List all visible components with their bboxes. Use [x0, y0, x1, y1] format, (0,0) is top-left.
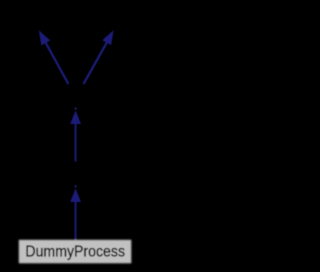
wire: middle vertical inheritance edge shaft: [75, 124, 77, 162]
node DummyProcess: class box: [19, 240, 132, 263]
wire: right inheritance edge shaft: [84, 43, 107, 84]
wire: left inheritance edge shaft: [46, 43, 69, 84]
node: left arrowhead to upper-left parent: [39, 30, 50, 45]
svg-text:DummyProcess: DummyProcess: [25, 243, 125, 261]
wire: lower vertical inheritance edge shaft: [75, 202, 77, 241]
node: lower arrowhead: [70, 185, 81, 202]
node: middle arrowhead: [70, 108, 81, 124]
node: right arrowhead to upper-right parent: [102, 30, 114, 45]
